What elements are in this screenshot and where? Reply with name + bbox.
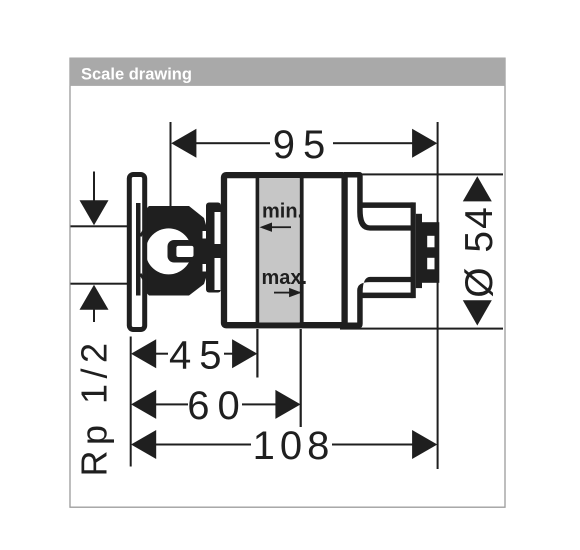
neck end wall [411,202,416,298]
extension line left of dim 95 [170,122,172,208]
lower notch between body and clip [203,264,210,272]
valve body octagon [136,206,206,296]
neck top edge [360,202,413,208]
extension line right of dims 95 and 108 [437,122,439,469]
body upper bevel line through flange [139,225,147,237]
spline block [422,222,439,283]
stem slot [176,246,193,257]
wall flange plate [129,175,144,330]
max arrowhead [289,288,302,297]
body lower bevel line through flange [139,273,147,285]
min arrow line [263,226,291,228]
cartridge stem tab inside bore [168,240,195,263]
svg-text:108: 108 [253,424,335,468]
min arrowhead [260,223,273,232]
adjustment range gray band [258,178,299,323]
bonnet lower profile with bore fillet [344,277,411,328]
bonnet upper profile with bore fillet [344,172,411,231]
right extension line of dim 60 [300,329,302,427]
dimension 60 line segments [155,403,188,405]
Rp 1/2 down arrow [80,200,109,225]
dimension 95 line segments [194,142,270,144]
retaining clip bracket [206,203,221,293]
diameter 54 upper extension line [358,173,503,175]
Rp 1/2 upper extension line [71,225,137,227]
dimension 95 right arrow [412,129,437,158]
dimension 95 left arrow [171,129,196,158]
gray band left edge line [256,178,260,323]
upper notch between body and clip [203,231,210,239]
dimension 108 left arrow [131,430,156,459]
max arrow line [274,292,300,294]
diameter 54 lower extension line [340,328,503,330]
gray band right edge line [300,178,304,323]
cartridge housing box [224,175,345,325]
body left face edge seen through flange [136,203,141,296]
dimension 60 left arrow [131,390,156,419]
dimension 60 right arrow [275,390,300,419]
svg-text:Scale drawing: Scale drawing [81,66,192,84]
spline lower notch [427,258,434,270]
right extension line of dim 45 [256,329,258,378]
clip upper slot [215,212,221,244]
header bar [70,58,506,86]
dimension 45 right arrow [232,339,257,368]
valve body bore circle [146,228,192,274]
dimension 108 right arrow [412,430,437,459]
svg-text:45: 45 [169,333,230,377]
diameter 54 up arrow [463,176,492,201]
spline upper notch [427,236,434,248]
svg-text:60: 60 [187,384,248,428]
dimension 45 left arrow [131,339,156,368]
Rp 1/2 dimension vertical line upper [93,172,95,203]
Rp 1/2 lower extension line [71,283,137,285]
svg-text:max.: max. [262,267,308,289]
collar ring [416,214,422,288]
svg-text:min.: min. [262,201,303,223]
diameter 54 down arrow [463,300,492,325]
left extension line of dims 45 60 108 [130,337,132,467]
dimension 108 line segments [155,444,251,446]
neck bottom edge [360,293,413,299]
svg-text:Ø 54: Ø 54 [458,205,501,298]
dimension 45 line segments [155,353,168,355]
Rp 1/2 up arrow [80,285,109,310]
Rp 1/2 dimension vertical line lower [93,308,95,322]
svg-text:95: 95 [273,123,334,167]
svg-text:Rp 1/2: Rp 1/2 [74,337,115,476]
clip lower slot [215,258,221,290]
outer frame [70,58,505,507]
